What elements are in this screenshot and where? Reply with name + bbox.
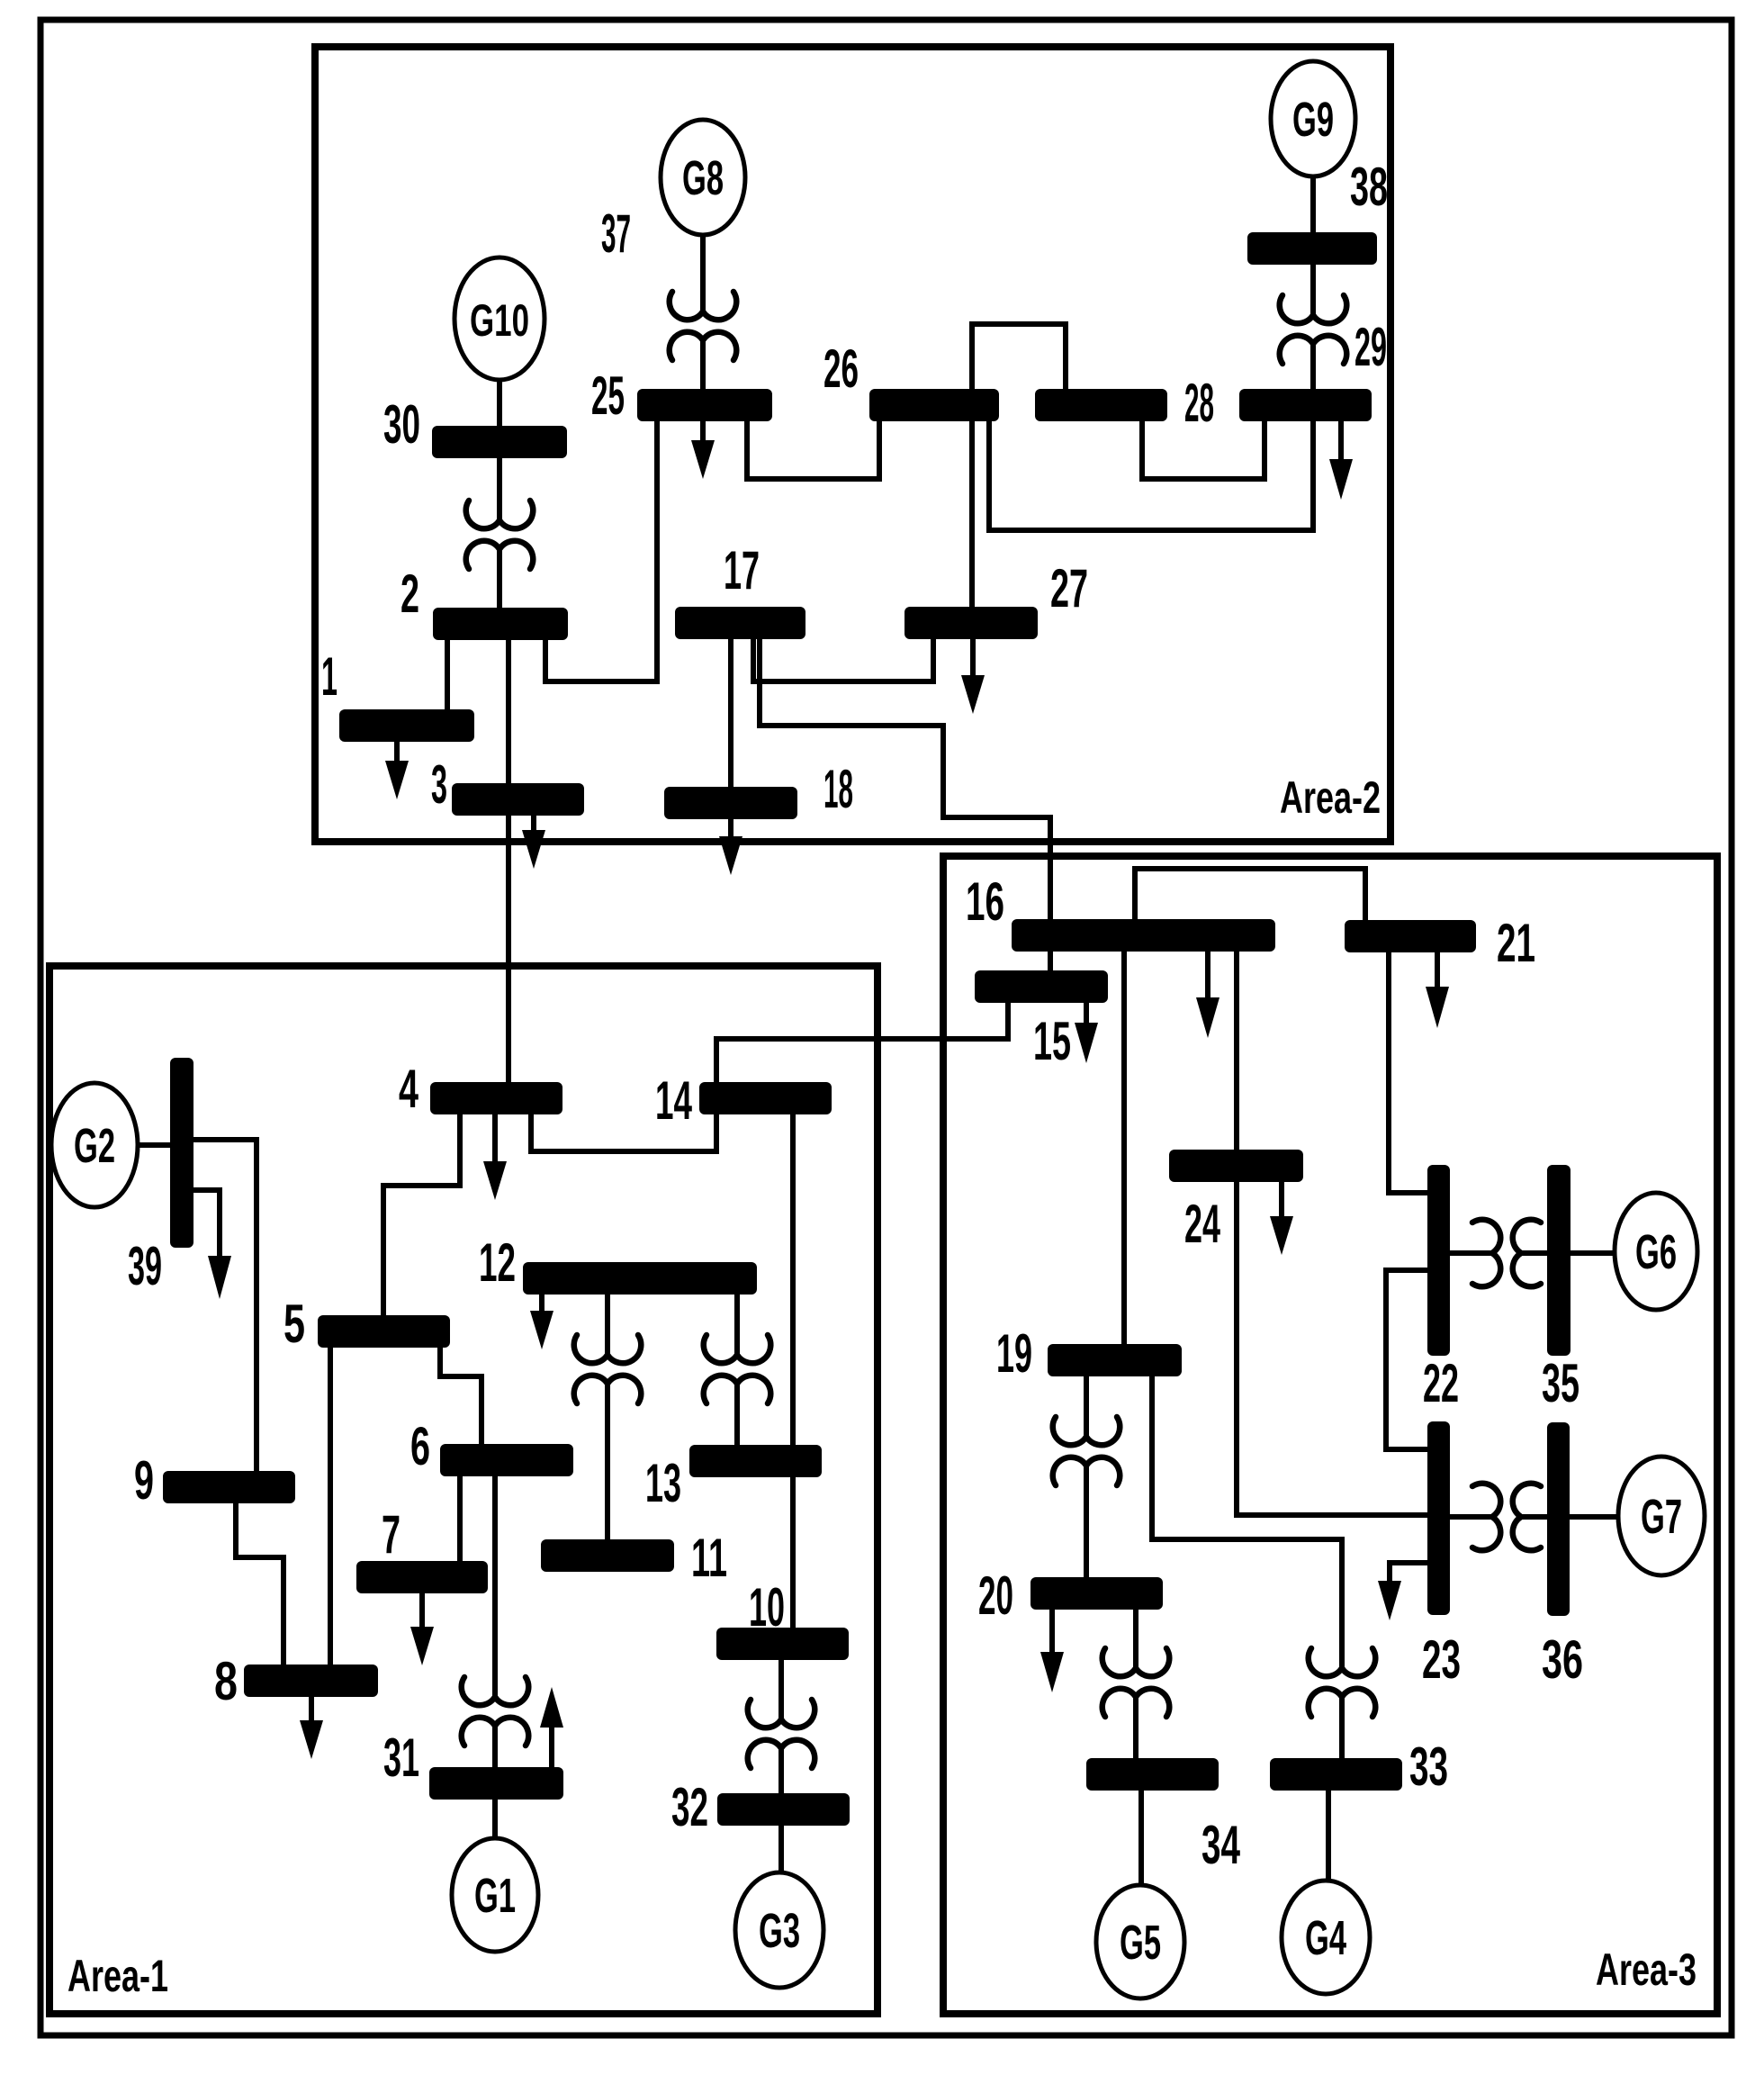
wire 31-G1 (492, 1800, 498, 1838)
wire G10-30 (497, 380, 502, 426)
wire xfmr-34 (1133, 1697, 1138, 1758)
svg-text:10: 10 (749, 1577, 785, 1637)
bus 29 bar (1239, 389, 1372, 421)
load arrow bus 3 (522, 816, 545, 869)
bus 2 bar (433, 608, 568, 640)
bus 32 bar (717, 1793, 850, 1826)
svg-text:G2: G2 (74, 1119, 115, 1173)
bus 17 bar (675, 607, 805, 639)
svg-text:2: 2 (400, 564, 419, 624)
wire 21-22 (1389, 951, 1427, 1193)
wire 22-xfmrG6 (1450, 1250, 1492, 1256)
bus 35 bar (vertical) (1547, 1165, 1570, 1356)
wire xfmr-32 (778, 1748, 784, 1793)
wire 4-5 (383, 1114, 460, 1315)
transformer T10-32 (748, 1700, 815, 1768)
wire 26-27 (969, 420, 975, 621)
wire 32-G3 (778, 1825, 784, 1873)
transformer T30-2 (466, 501, 534, 569)
bus 3 bar (452, 783, 584, 816)
wire 39-9 (193, 1140, 256, 1471)
wire 2-25 (545, 420, 657, 681)
svg-text:5: 5 (283, 1294, 305, 1354)
transformer T12-11 (574, 1335, 642, 1403)
svg-text:6: 6 (410, 1416, 430, 1476)
svg-text:32: 32 (671, 1777, 708, 1837)
svg-text:31: 31 (383, 1728, 419, 1788)
svg-text:1: 1 (321, 646, 337, 707)
svg-text:28: 28 (1184, 373, 1214, 433)
transformer T23-36 (1472, 1484, 1541, 1551)
wire 10-xfmr32 (778, 1658, 784, 1719)
Area-1 box (49, 966, 877, 2014)
wire 9-8 (236, 1502, 283, 1665)
wire 16-24 (1234, 951, 1239, 1150)
load arrow bus 20 (1040, 1609, 1064, 1692)
svg-text:23: 23 (1422, 1629, 1461, 1690)
wire xfmr-31 (492, 1726, 498, 1767)
svg-text:19: 19 (996, 1323, 1032, 1384)
generator G8 (661, 120, 745, 235)
transformer T38-29 (1280, 295, 1347, 364)
svg-text:34: 34 (1201, 1815, 1240, 1875)
svg-text:27: 27 (1050, 558, 1088, 618)
wire 16-21 bridge (1135, 869, 1365, 920)
svg-text:8: 8 (214, 1651, 238, 1711)
svg-text:25: 25 (591, 365, 625, 426)
wire 34-G5 (1138, 1791, 1144, 1886)
bus 28 bar (1035, 389, 1167, 421)
generator G9 (1271, 61, 1355, 176)
Area-3 box (943, 856, 1717, 2014)
wire 35-G6 (1570, 1250, 1615, 1256)
generator G3 (735, 1872, 823, 1988)
bus 13 bar (689, 1445, 822, 1477)
generator G7 (1618, 1457, 1705, 1575)
wire 5-6 (440, 1347, 481, 1445)
load arrow bus 21 (1426, 951, 1449, 1028)
svg-text:26: 26 (823, 338, 859, 399)
svg-text:24: 24 (1184, 1194, 1220, 1254)
bus 10 bar (716, 1628, 849, 1660)
generator G2 (51, 1083, 138, 1207)
svg-text:G8: G8 (682, 151, 724, 205)
wire 33-G4 (1326, 1791, 1331, 1881)
wire 20-xfmr34 (1133, 1609, 1138, 1668)
svg-text:39: 39 (128, 1236, 162, 1296)
bus 23 bar (vertical) (1427, 1421, 1450, 1615)
svg-text:G1: G1 (474, 1869, 516, 1923)
svg-text:Area-3: Area-3 (1596, 1944, 1696, 1995)
wire 38-xfmr (1310, 265, 1316, 315)
load arrow bus 7 (410, 1593, 434, 1665)
load arrow bus 27 (961, 637, 985, 714)
load arrow bus 25 (691, 420, 715, 479)
wire xfmr-2 (497, 549, 502, 608)
wire 16-19 (1121, 951, 1127, 1344)
bus 25 bar (637, 389, 772, 421)
wire 2-3-4 (506, 638, 511, 1082)
wire 14-15 (716, 1001, 1008, 1082)
wire 6-7 (457, 1476, 463, 1561)
bus 8 bar (244, 1665, 378, 1697)
load arrow bus 23 (1378, 1563, 1427, 1620)
svg-text:G9: G9 (1292, 93, 1334, 147)
load arrow bus 12 (530, 1295, 553, 1349)
svg-text:15: 15 (1033, 1011, 1071, 1071)
wire xfmr-13 (734, 1384, 740, 1446)
wire 19-xfmr20 (1084, 1376, 1089, 1437)
wire 15-16 (1048, 951, 1053, 970)
wire 22-23 (1386, 1270, 1427, 1449)
wire G8-xfmr (700, 235, 706, 311)
svg-text:9: 9 (134, 1450, 154, 1511)
svg-text:11: 11 (691, 1528, 727, 1588)
bus 14 bar (699, 1082, 832, 1114)
bus 20 bar (1030, 1577, 1163, 1610)
bus 7 bar (356, 1561, 488, 1593)
svg-text:18: 18 (823, 759, 853, 819)
svg-text:G10: G10 (470, 295, 529, 346)
svg-text:20: 20 (978, 1565, 1013, 1626)
bus 6 bar (440, 1444, 573, 1476)
svg-text:3: 3 (431, 754, 447, 815)
wire 23-xfmrG7 (1450, 1514, 1492, 1520)
bus 26 bar (869, 389, 999, 421)
bus 30 bar (432, 426, 567, 458)
svg-text:17: 17 (724, 540, 760, 600)
wire xfmr-20 (1084, 1466, 1089, 1577)
svg-text:33: 33 (1409, 1737, 1448, 1797)
svg-text:7: 7 (382, 1504, 400, 1565)
transformer T22-35 (1472, 1220, 1541, 1287)
wire 17-18 (728, 637, 733, 787)
bus 12 bar (523, 1262, 757, 1295)
svg-text:38: 38 (1350, 157, 1388, 217)
bus 38 bar (1247, 232, 1377, 265)
bus 4 bar (430, 1082, 562, 1114)
svg-text:4: 4 (399, 1059, 418, 1119)
wire G9-38 (1310, 176, 1316, 232)
bus 18 bar (664, 787, 797, 819)
wire xfmr-25 (700, 340, 706, 389)
bus 33 bar (1270, 1758, 1402, 1791)
wire 24-23 (1237, 1180, 1427, 1515)
svg-text:G6: G6 (1635, 1225, 1677, 1279)
load arrow bus 15 (1075, 1001, 1098, 1063)
generator G10 (454, 257, 544, 380)
wire 2-1 (445, 638, 450, 709)
wire 25-26 (747, 420, 879, 479)
wire 6-xfmr31 (492, 1476, 498, 1697)
bus 31 bar (429, 1767, 563, 1800)
bus 15 bar (975, 970, 1108, 1003)
bus 9 bar (163, 1471, 295, 1503)
Area-2 box (315, 47, 1390, 842)
svg-text:Area-2: Area-2 (1280, 772, 1381, 823)
svg-text:21: 21 (1497, 913, 1535, 973)
wire 17-16 (760, 637, 1050, 919)
bus 16 bar (1012, 919, 1275, 952)
load arrow bus 16 (1196, 951, 1219, 1038)
svg-text:16: 16 (966, 871, 1004, 932)
svg-text:30: 30 (383, 394, 420, 455)
load arrow bus 18 (719, 820, 742, 875)
transformer T19-33 (1309, 1648, 1376, 1717)
transformer T37-25 (670, 292, 737, 360)
transformer T12-13 (704, 1335, 771, 1403)
wire 5-8 (328, 1347, 333, 1665)
wire 26-29 (989, 420, 1313, 530)
bus 39 bar (vertical) (170, 1058, 193, 1248)
generator G4 (1282, 1881, 1370, 1994)
generator G6 (1615, 1193, 1697, 1310)
svg-text:12: 12 (479, 1232, 516, 1293)
svg-text:22: 22 (1423, 1353, 1459, 1413)
wire 28-29 (1142, 420, 1264, 479)
wire 26-28 bridge (972, 324, 1066, 389)
svg-text:Area-1: Area-1 (67, 1951, 168, 2001)
load arrow bus 24 (1270, 1180, 1293, 1255)
transformer T19-20 (1053, 1417, 1120, 1485)
svg-text:G5: G5 (1120, 1916, 1161, 1970)
bus 21 bar (1345, 920, 1476, 952)
wire 17-27 (753, 637, 933, 681)
bus 22 bar (vertical) (1427, 1165, 1450, 1356)
wire 36-G7 (1570, 1514, 1618, 1520)
bus 5 bar (318, 1315, 450, 1348)
generator G1 (452, 1838, 538, 1952)
transformer T20-34 (1102, 1648, 1170, 1717)
svg-text:14: 14 (655, 1070, 692, 1131)
transformer T6-31 (462, 1677, 529, 1746)
bus 27 bar (904, 607, 1038, 639)
bus 11 bar (541, 1539, 674, 1572)
wire 14-13-10 (790, 1114, 796, 1628)
svg-text:29: 29 (1354, 317, 1387, 377)
svg-text:36: 36 (1542, 1629, 1583, 1690)
wire 4-14 (531, 1114, 716, 1151)
wire xfmrG7-36 (1521, 1514, 1547, 1520)
svg-text:G4: G4 (1305, 1911, 1346, 1965)
wire xfmr-11 (605, 1384, 610, 1539)
bus 1 bar (339, 709, 474, 742)
load arrow bus 29 (1329, 420, 1353, 500)
bus 24 bar (1169, 1150, 1303, 1182)
bus 34 bar (1086, 1758, 1219, 1791)
wire G2-39 (138, 1142, 171, 1148)
svg-text:37: 37 (601, 203, 631, 264)
svg-text:13: 13 (645, 1453, 681, 1513)
wire xfmr-33 (1339, 1697, 1345, 1758)
svg-text:G3: G3 (759, 1904, 800, 1958)
wire 12-xfmr13 (734, 1295, 740, 1355)
injection arrow bus 31 (points up) (540, 1687, 563, 1767)
wire 30-xfmr (497, 459, 502, 520)
load arrow bus 1 (385, 742, 409, 799)
svg-text:35: 35 (1542, 1353, 1579, 1413)
load arrow bus 8 (300, 1697, 323, 1759)
bus 36 bar (vertical) (1547, 1422, 1570, 1616)
generator G5 (1096, 1885, 1184, 1998)
load arrow bus 4 (483, 1114, 507, 1200)
wire xfmr-29 (1310, 344, 1316, 389)
svg-text:G7: G7 (1641, 1490, 1682, 1544)
wire 12-xfmr11 (605, 1295, 610, 1355)
wire 19-33 (1152, 1376, 1342, 1668)
bus 19 bar (1048, 1344, 1182, 1376)
wire xfmrG6-35 (1521, 1250, 1547, 1256)
load arrow bus 39 (193, 1190, 231, 1299)
